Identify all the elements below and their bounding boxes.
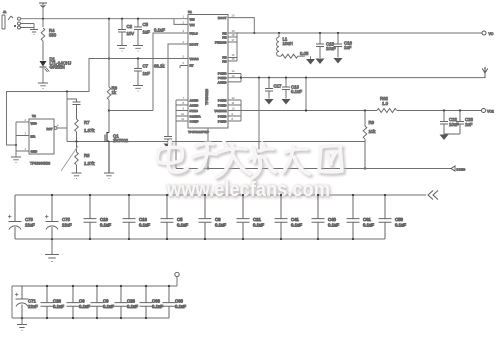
wire jack pins 2,3 to ground <box>21 24 35 30</box>
svg-text:C21: C21 <box>253 217 261 222</box>
svg-text:U2: U2 <box>32 114 36 118</box>
wire SW sense <box>109 44 188 136</box>
node R14 top <box>364 109 366 111</box>
svg-text:SYNC: SYNC <box>190 109 199 113</box>
wire PGND to DGND <box>258 78 260 169</box>
capacitor C28 <box>115 285 139 318</box>
wire to TPS3809 supply <box>7 59 110 146</box>
capacitor C19 <box>84 194 112 239</box>
node RST drop tap <box>66 90 68 92</box>
svg-text:C40: C40 <box>328 217 336 222</box>
svg-text:330: 330 <box>49 33 57 38</box>
svg-text:DGND: DGND <box>457 168 467 172</box>
svg-text:0.1uF: 0.1uF <box>103 304 114 309</box>
capacitor C15 <box>319 32 321 34</box>
capacitor C66 <box>140 285 164 318</box>
svg-text:VIN: VIN <box>190 23 195 27</box>
ground row2 <box>17 318 27 331</box>
svg-text:PGND: PGND <box>218 104 228 108</box>
svg-text:0.1uF: 0.1uF <box>177 222 188 227</box>
capacitor C61 <box>347 194 375 239</box>
svg-text:C17: C17 <box>274 84 282 89</box>
node drain <box>108 109 110 111</box>
svg-text:0.1uF: 0.1uF <box>139 222 150 227</box>
ground C7 <box>133 86 143 92</box>
capacitor C7 <box>134 59 142 86</box>
terminal VOUT top <box>482 31 486 35</box>
resistor R62 <box>377 109 397 113</box>
stray diagonal mark <box>61 146 78 171</box>
ground C5 <box>133 46 143 52</box>
capacitor C22 <box>443 109 445 111</box>
capacitor C26 <box>41 285 65 318</box>
svg-text:C7: C7 <box>143 64 149 69</box>
terminal lower output <box>482 109 486 113</box>
connector J1 power jack <box>2 10 21 29</box>
resistor R4 <box>41 28 45 61</box>
capacitor C2 input <box>121 18 123 20</box>
capacitor C17 <box>268 77 270 79</box>
capacitor C79 <box>8 195 22 239</box>
ground R13 <box>306 59 315 65</box>
svg-text:BOOT: BOOT <box>190 43 199 47</box>
svg-text:C28: C28 <box>127 299 135 304</box>
svg-text:VDD: VDD <box>31 122 38 126</box>
svg-text:1uF: 1uF <box>465 122 473 127</box>
ground TPS3809 <box>11 157 21 163</box>
wire <box>42 7 44 27</box>
svg-text:J1: J1 <box>3 10 7 14</box>
ground R8 <box>72 173 82 179</box>
transistor Q1 <box>105 132 109 173</box>
svg-text:10uH: 10uH <box>283 41 293 46</box>
pin RST bubble <box>54 127 57 130</box>
node supply bus <box>15 144 17 146</box>
svg-text:1.0: 1.0 <box>382 101 389 106</box>
svg-text:BOOT: BOOT <box>218 16 227 20</box>
svg-text:C26: C26 <box>53 299 61 304</box>
svg-text:PH: PH <box>222 36 226 40</box>
svg-text:22uF: 22uF <box>25 222 35 227</box>
svg-text:0.1uF: 0.1uF <box>100 222 111 227</box>
svg-text:0.1uF: 0.1uF <box>253 222 264 227</box>
svg-text:C5: C5 <box>177 217 183 222</box>
svg-text:C2: C2 <box>127 24 133 29</box>
row1 ceramic caps <box>0 0 1 1</box>
svg-text:C6: C6 <box>79 299 85 304</box>
svg-text:10uF: 10uF <box>449 122 459 127</box>
wire PGND pins <box>228 74 241 82</box>
svg-text:0.1uF: 0.1uF <box>53 304 64 309</box>
LED D1 <box>40 61 50 72</box>
svg-text:VBIAS: VBIAS <box>190 57 199 61</box>
svg-text:0.1uF: 0.1uF <box>127 304 138 309</box>
ground row1 <box>45 239 59 262</box>
svg-text:C75: C75 <box>62 217 70 222</box>
row2 top bus <box>12 277 177 286</box>
resistor R8 <box>75 142 79 173</box>
svg-text:TPS54310: TPS54310 <box>205 89 209 105</box>
node divider mid <box>75 140 77 142</box>
wire pad drop <box>207 128 209 169</box>
node PGND drop <box>258 77 260 79</box>
svg-text:www.elecfans.com: www.elecfans.com <box>166 179 330 201</box>
svg-text:VIN: VIN <box>190 18 195 22</box>
node tee y58 <box>108 57 110 59</box>
svg-text:C8: C8 <box>215 217 221 222</box>
svg-text:C61: C61 <box>363 217 371 222</box>
svg-text:1uF: 1uF <box>143 30 151 35</box>
svg-text:C68: C68 <box>175 299 183 304</box>
ground C15 <box>316 59 325 65</box>
power flag VCC <box>39 3 47 8</box>
wire main input rail <box>21 18 189 20</box>
wire RESET net <box>57 127 67 129</box>
ground C17 <box>265 99 274 105</box>
resistor R13 <box>279 54 305 58</box>
svg-text:PGND: PGND <box>218 115 228 119</box>
svg-text:C5: C5 <box>143 22 149 27</box>
capacitor C16 <box>337 32 339 34</box>
wire UVLO drop <box>153 33 188 111</box>
svg-text:PWRGD: PWRGD <box>215 41 227 45</box>
junction dots buses <box>46 194 354 319</box>
svg-text:GND: GND <box>31 150 39 154</box>
svg-text:1.87k: 1.87k <box>84 128 95 133</box>
IC U1 TPS54310 <box>188 15 228 129</box>
capacitor C40 <box>312 194 340 239</box>
wire RST drop <box>66 92 68 142</box>
tag DGND <box>451 166 455 171</box>
ground Q1 <box>104 173 114 179</box>
inductor L1 <box>278 32 280 34</box>
svg-text:PGND: PGND <box>218 120 228 124</box>
wire <box>42 67 44 83</box>
svg-text:10k: 10k <box>369 129 377 134</box>
capacitor C10 <box>67 99 81 119</box>
svg-text:2N7002: 2N7002 <box>113 138 129 143</box>
svg-text:VSENSE: VSENSE <box>214 109 226 113</box>
svg-text:GREEN: GREEN <box>50 65 65 70</box>
svg-text:0.1uF: 0.1uF <box>291 89 302 94</box>
svg-text:COMP: COMP <box>190 120 199 124</box>
wire PH pins <box>228 32 237 61</box>
svg-text:0.1uF: 0.1uF <box>395 222 406 227</box>
svg-text:VO2: VO2 <box>487 110 494 114</box>
capacitor C23 <box>459 109 461 111</box>
capacitor C8 <box>199 194 227 239</box>
svg-text:68.1k: 68.1k <box>154 64 165 69</box>
svg-text:RT: RT <box>190 64 194 68</box>
wire right pins bus <box>228 100 241 121</box>
svg-text:0.1uF: 0.1uF <box>363 222 374 227</box>
capacitor C59 <box>379 194 407 239</box>
svg-text:C79: C79 <box>25 217 33 222</box>
ground C22 <box>440 135 449 141</box>
wire y58 to pin <box>109 58 188 60</box>
wire drop to lower net <box>305 78 307 111</box>
svg-text:R7: R7 <box>84 120 90 125</box>
svg-text:C41: C41 <box>291 217 299 222</box>
svg-text:C19: C19 <box>100 217 108 222</box>
svg-text:TPS54310PWP: TPS54310PWP <box>188 130 209 134</box>
svg-text:C66: C66 <box>152 299 160 304</box>
svg-text:TPS3809K33: TPS3809K33 <box>30 162 50 166</box>
svg-text:22uF: 22uF <box>62 222 72 227</box>
resistor R7 <box>75 119 79 142</box>
capacitor C41 <box>275 194 303 239</box>
terminal row2 <box>175 272 179 276</box>
row1 bottom bus <box>15 238 385 240</box>
ground jack <box>30 30 38 35</box>
svg-text:RST: RST <box>47 127 53 131</box>
svg-text:C71: C71 <box>28 299 36 304</box>
svg-text:0.1uF: 0.1uF <box>154 28 165 33</box>
ground C16 <box>334 58 343 64</box>
capacitor C6 <box>67 285 91 318</box>
ground Css <box>164 144 173 150</box>
svg-text:R8: R8 <box>84 153 90 158</box>
capacitor C16 <box>123 194 151 239</box>
svg-text:AGND: AGND <box>218 80 228 84</box>
capacitor C13 <box>285 77 287 79</box>
pin numbers <box>25 14 235 151</box>
wire PH output net <box>237 32 482 34</box>
svg-text:PGND: PGND <box>218 72 228 76</box>
wire DGND net <box>176 168 451 170</box>
node rail feed <box>108 18 110 20</box>
capacitor C68 <box>163 285 187 318</box>
offpage chevrons <box>428 191 438 200</box>
svg-text:PH: PH <box>222 60 226 64</box>
svg-text:AGND: AGND <box>190 104 200 108</box>
svg-text:C16: C16 <box>139 217 147 222</box>
resistor R6 <box>107 87 111 133</box>
svg-text:1uF: 1uF <box>344 45 352 50</box>
terminal mid <box>482 69 488 79</box>
svg-text:UVLO: UVLO <box>190 32 199 36</box>
row1 top bus <box>15 194 426 196</box>
svg-text:22uF: 22uF <box>28 304 38 309</box>
node mid-lower drop <box>305 77 307 79</box>
wire VIN2 tie <box>174 19 188 25</box>
svg-text:0.05: 0.05 <box>300 51 309 56</box>
capacitor C75 <box>45 195 59 239</box>
svg-text:0.1uF: 0.1uF <box>328 222 339 227</box>
svg-text:C9: C9 <box>103 299 109 304</box>
svg-text:C59: C59 <box>395 217 403 222</box>
svg-text:0.1uF: 0.1uF <box>152 304 163 309</box>
wire mid net <box>241 77 485 79</box>
wire RESET long line <box>67 141 365 143</box>
svg-text:10V: 10V <box>127 31 135 36</box>
IC U2 TPS3809 <box>29 119 54 154</box>
watermark chinese <box>157 141 344 180</box>
svg-text:1.87k: 1.87k <box>84 161 95 166</box>
svg-text:VO: VO <box>489 32 494 36</box>
capacitor C21 <box>237 194 265 239</box>
capacitor Css <box>164 137 172 144</box>
node rail-LED <box>42 18 44 20</box>
svg-text:R9: R9 <box>369 120 375 125</box>
svg-text:0.1uF: 0.1uF <box>291 222 302 227</box>
wire lower output net <box>241 110 482 112</box>
ground LED <box>38 83 48 89</box>
capacitor C9 <box>91 285 115 318</box>
capacitor C5 input <box>137 18 139 20</box>
svg-text:0.1uF: 0.1uF <box>175 304 186 309</box>
wire AGND bus <box>176 100 188 169</box>
svg-text:1uF: 1uF <box>143 71 151 76</box>
capacitor C5 <box>161 194 189 239</box>
wire vertical feed <box>108 19 110 87</box>
row2 bottom bus <box>12 286 169 318</box>
resistor R14 <box>363 111 367 169</box>
svg-text:PGND: PGND <box>218 99 228 103</box>
svg-text:U1: U1 <box>188 10 192 14</box>
svg-text:AGND: AGND <box>190 99 200 103</box>
svg-text:0.1uF: 0.1uF <box>79 304 90 309</box>
svg-text:0.1uF: 0.1uF <box>215 222 226 227</box>
capacitor C71 <box>15 286 29 318</box>
ground C2 <box>117 46 127 52</box>
wire BOOT <box>228 18 254 33</box>
wire TPS3809 pin bus <box>16 122 29 157</box>
svg-text:SS/ENA: SS/ENA <box>190 115 202 119</box>
node C7 <box>137 57 139 59</box>
ground C13 <box>282 99 291 105</box>
